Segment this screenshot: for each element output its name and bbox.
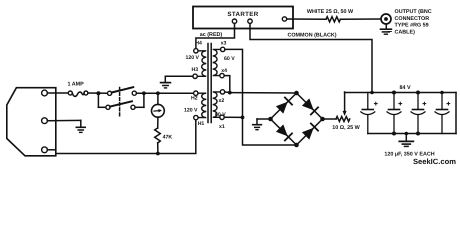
svg-text:60 V: 60 V bbox=[224, 56, 235, 62]
svg-text:ac (RED): ac (RED) bbox=[200, 32, 223, 38]
svg-text:x4: x4 bbox=[221, 68, 227, 74]
svg-text:x1: x1 bbox=[219, 124, 225, 130]
svg-text:SeekIC.com: SeekIC.com bbox=[413, 157, 456, 166]
svg-text:WHITE 25 Ω, 50 W: WHITE 25 Ω, 50 W bbox=[307, 9, 354, 15]
svg-text:COMMON (BLACK): COMMON (BLACK) bbox=[287, 32, 336, 38]
svg-text:H4: H4 bbox=[195, 40, 202, 46]
svg-text:H1: H1 bbox=[198, 121, 205, 127]
svg-text:120 V: 120 V bbox=[184, 107, 198, 113]
svg-text:10 Ω, 25 W: 10 Ω, 25 W bbox=[332, 125, 360, 131]
svg-text:STARTER: STARTER bbox=[227, 11, 258, 18]
svg-text:OUTPUT (BNC: OUTPUT (BNC bbox=[395, 9, 432, 15]
svg-text:1 AMP: 1 AMP bbox=[67, 82, 84, 88]
svg-text:60 V: 60 V bbox=[215, 112, 226, 118]
svg-text:84 V: 84 V bbox=[399, 85, 410, 91]
svg-text:x3: x3 bbox=[221, 41, 227, 47]
svg-text:H3: H3 bbox=[192, 67, 199, 73]
svg-text:x2: x2 bbox=[219, 98, 225, 104]
svg-text:47K: 47K bbox=[163, 134, 173, 140]
svg-text:CABLE): CABLE) bbox=[395, 29, 416, 35]
svg-text:H2: H2 bbox=[191, 96, 198, 102]
svg-text:120 V: 120 V bbox=[185, 55, 199, 61]
svg-text:TYPE #RG 59: TYPE #RG 59 bbox=[395, 23, 429, 29]
svg-text:CONNECTOR: CONNECTOR bbox=[395, 16, 430, 22]
